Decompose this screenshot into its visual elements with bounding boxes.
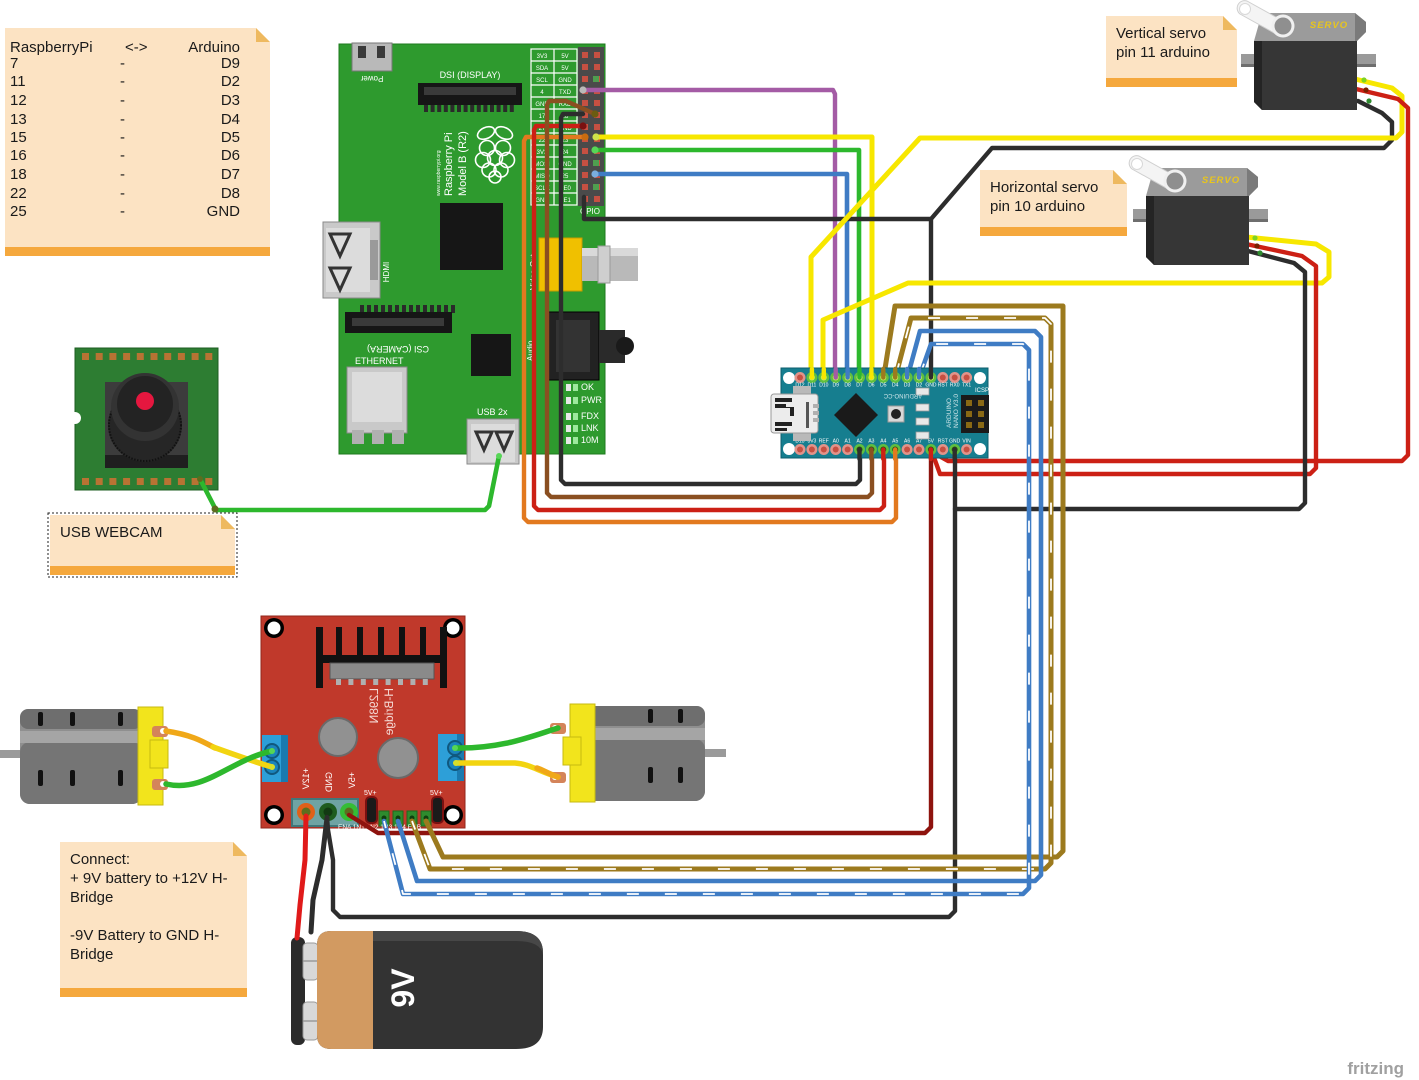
wire: horizontal servo black to Arduino GND	[955, 251, 1305, 509]
LED labels OK PWR FDX LNK 10M	[566, 382, 602, 445]
wire: Pi GPIO hook to A3 (brown)	[547, 101, 872, 497]
svg-text:D5: D5	[880, 383, 887, 389]
svg-text:ARDUINO-CC: ARDUINO-CC	[883, 392, 922, 398]
svg-text:D6: D6	[868, 383, 875, 389]
svg-text:VIN: VIN	[962, 439, 971, 445]
svg-text:TXD: TXD	[559, 90, 572, 96]
svg-text:pin 10 arduino: pin 10 arduino	[990, 198, 1085, 215]
svg-text:SCL: SCL	[536, 78, 548, 84]
Pi CSI camera connector	[345, 305, 455, 354]
svg-text:-: -	[120, 203, 125, 220]
svg-text:fritzing: fritzing	[1347, 1059, 1404, 1078]
GPIO wire connection caps	[579, 86, 599, 177]
Pi HDMI connector	[323, 222, 391, 298]
right DC motor	[550, 704, 726, 802]
svg-text:-: -	[120, 111, 125, 128]
svg-text:5V: 5V	[561, 66, 568, 72]
Arduino SMD passives	[916, 388, 929, 395]
svg-text:5V+: 5V+	[430, 790, 443, 797]
svg-text:D5: D5	[221, 129, 240, 146]
svg-text:RX0: RX0	[950, 383, 960, 389]
svg-text:9V: 9V	[385, 968, 421, 1008]
wire: Pi GPIO to Arduino D9 (purple)	[583, 90, 835, 375]
Pi audio jack	[526, 312, 634, 380]
Pi power connector	[352, 43, 392, 83]
wire: right motor leads	[455, 728, 558, 748]
Pi video out RCA	[529, 238, 638, 291]
svg-text:A2: A2	[856, 439, 862, 445]
svg-text:13: 13	[10, 111, 27, 128]
svg-text:REF: REF	[819, 439, 829, 445]
svg-text:SERVO: SERVO	[1202, 175, 1240, 186]
wire: H-bridge GND to battery - (black)	[311, 818, 327, 932]
wire: Arduino GND to H-bridge GND terminal (black)	[327, 450, 955, 917]
Arduino ICSP header	[961, 388, 989, 433]
Pi GPIO label table	[531, 49, 577, 205]
wire: GND black Pi GPIO 25 to vertical servo, branch to Arduino GND	[584, 101, 1392, 219]
H-bridge capacitors	[319, 718, 357, 756]
svg-text:ENA 1N1 1N2 1N3 1N4 ENB: ENA 1N1 1N2 1N3 1N4 ENB	[338, 824, 421, 831]
GPIO green pads	[593, 76, 599, 190]
svg-text:Power: Power	[360, 74, 383, 83]
svg-text:D9: D9	[221, 55, 240, 72]
wire: Arduino D11 to vertical servo signal (yellow)	[811, 79, 1402, 375]
Pi DSI display connector	[418, 70, 522, 112]
svg-text:-: -	[120, 92, 125, 109]
svg-text:+ 9V battery to +12V H-: + 9V battery to +12V H-	[70, 870, 228, 887]
svg-text:12: 12	[10, 92, 27, 109]
svg-text:FDX: FDX	[581, 411, 599, 421]
svg-text:Vertical servo: Vertical servo	[1116, 25, 1206, 42]
svg-text:A5: A5	[892, 439, 898, 445]
svg-text:A6: A6	[904, 439, 910, 445]
svg-text:pin 11 arduino: pin 11 arduino	[1116, 44, 1210, 61]
USB webcam board	[69, 348, 218, 490]
Raspberry Pi Model B board	[339, 44, 605, 454]
svg-text:D9: D9	[832, 383, 839, 389]
svg-text:ETHERNET: ETHERNET	[355, 356, 404, 366]
svg-text:D4: D4	[221, 111, 240, 128]
Pi logo + text	[476, 124, 515, 183]
svg-text:Model B (R2): Model B (R2)	[457, 131, 469, 196]
svg-text:DSI (DISPLAY): DSI (DISPLAY)	[440, 70, 501, 80]
wire: Pi GPIO hook to A4 (red)	[534, 126, 884, 510]
svg-text:USB 2x: USB 2x	[477, 407, 508, 417]
svg-text:D3: D3	[221, 92, 240, 109]
svg-text:11: 11	[10, 73, 26, 90]
svg-text:10M: 10M	[581, 435, 599, 445]
note: USB WEBCAM	[48, 513, 237, 577]
wire: Arduino D10 to horizontal servo signal (yellow)	[823, 237, 1329, 375]
wire: webcam to Pi USB (green)	[200, 479, 215, 508]
svg-text:Bridge: Bridge	[70, 889, 113, 906]
svg-text:RST: RST	[938, 439, 948, 445]
H-bridge heatsink	[316, 627, 447, 688]
svg-text:ICSP: ICSP	[975, 388, 989, 394]
svg-text:A0: A0	[833, 439, 839, 445]
Pi SoC chip	[440, 203, 503, 270]
wire: Pi GPIO to Arduino D6 (yellow)	[596, 137, 872, 375]
wire: Arduino 5V to H-bridge +5V terminal (dark red)	[349, 452, 931, 833]
wire: vertical servo red to Arduino 5V	[932, 89, 1408, 461]
svg-text:25: 25	[10, 203, 27, 220]
svg-text:GND: GND	[207, 203, 241, 220]
svg-text:D2: D2	[221, 73, 240, 90]
svg-text:HDMI: HDMI	[382, 262, 391, 282]
svg-text:Arduino: Arduino	[188, 39, 240, 56]
Pi LAN chip	[471, 334, 511, 376]
svg-text:ARDUINO: ARDUINO	[946, 398, 953, 428]
svg-text:GND: GND	[949, 439, 961, 445]
wire: H-bridge +12V to battery + (red)	[297, 816, 306, 938]
svg-text:5V+: 5V+	[364, 790, 377, 797]
Arduino MCU diamond chip	[834, 393, 878, 437]
svg-text:15: 15	[10, 129, 27, 146]
wire: Arduino D3 to H-bridge 1N2 (blue)	[398, 331, 1041, 881]
svg-text:D4: D4	[892, 383, 899, 389]
svg-text:D7: D7	[856, 383, 863, 389]
left DC motor	[0, 707, 168, 805]
Arduino pin rows	[795, 372, 973, 455]
wire: Arduino D5 to H-bridge 1N4 (dark yellow)	[426, 306, 1063, 857]
9V battery	[291, 931, 543, 1049]
svg-text:Horizontal servo: Horizontal servo	[990, 179, 1098, 196]
Pi ethernet connector	[347, 356, 407, 444]
svg-text:-: -	[120, 129, 125, 146]
wire: Pi GPIO hook to A2 (black)	[561, 114, 860, 484]
horizontal servo lead tip dots	[1252, 235, 1257, 240]
Arduino RST button	[888, 406, 904, 422]
Arduino pin wire tip stubs	[812, 369, 955, 459]
svg-text:PWR: PWR	[581, 395, 602, 405]
H-bridge 5V jumpers	[364, 790, 443, 823]
svg-text:RST: RST	[938, 383, 948, 389]
H-bridge +12V GND +5V labels	[301, 768, 357, 793]
note: horizontal servo pin 10	[980, 170, 1127, 236]
note: RaspberryPi-Arduino pin mapping	[5, 28, 270, 256]
svg-text:A1: A1	[845, 439, 851, 445]
svg-text:Bridge: Bridge	[70, 946, 113, 963]
Pi USB 2x connector	[467, 407, 519, 464]
svg-text:CSI (CAMERA): CSI (CAMERA)	[367, 344, 429, 354]
svg-text:Raspberry Pi: Raspberry Pi	[443, 132, 455, 196]
wire: left motor leads	[166, 731, 215, 748]
wire: Pi GPIO hook to A5 (orange)	[524, 137, 896, 522]
svg-text:22: 22	[10, 185, 27, 202]
svg-text:H-Bridge: H-Bridge	[382, 688, 396, 736]
Arduino Nano board	[781, 368, 988, 458]
svg-text:NANO V3.0: NANO V3.0	[953, 394, 960, 428]
wire: Pi GPIO to Arduino D7 (green)	[595, 150, 859, 375]
svg-text:www.raspberrypi.org: www.raspberrypi.org	[436, 150, 442, 196]
svg-text:OK: OK	[581, 382, 594, 392]
svg-text:LNK: LNK	[581, 423, 599, 433]
svg-text:-: -	[120, 185, 125, 202]
svg-text:D3: D3	[904, 383, 911, 389]
svg-text:18: 18	[10, 166, 27, 183]
svg-text:Connect:: Connect:	[70, 851, 130, 868]
vertical servo lead tip dots	[1361, 77, 1366, 82]
svg-text:RaspberryPi: RaspberryPi	[10, 39, 93, 56]
svg-text:TX1: TX1	[962, 383, 971, 389]
svg-text:D7: D7	[221, 166, 240, 183]
svg-text:<->: <->	[125, 39, 148, 56]
svg-text:SERVO: SERVO	[1310, 20, 1348, 31]
svg-text:SDA: SDA	[536, 66, 548, 72]
svg-text:USB WEBCAM: USB WEBCAM	[60, 524, 163, 541]
svg-text:3V3: 3V3	[537, 54, 548, 60]
svg-text:L298N: L298N	[367, 688, 381, 723]
svg-text:-: -	[120, 73, 125, 90]
wire: horizontal servo red to Arduino 5V	[932, 244, 1316, 474]
svg-text:A4: A4	[880, 439, 886, 445]
H-bridge signal header pins ENA..ENB	[338, 811, 431, 831]
svg-text:+12V: +12V	[301, 768, 311, 789]
L298N H-Bridge board	[261, 616, 465, 828]
H-bridge right motor terminal	[438, 734, 464, 781]
svg-text:D6: D6	[221, 147, 240, 164]
svg-text:D8: D8	[221, 185, 240, 202]
svg-text:D10: D10	[819, 383, 828, 389]
svg-text:-: -	[120, 166, 125, 183]
note: battery connect instructions	[60, 842, 247, 997]
H-bridge power terminal block	[292, 799, 358, 826]
vertical servo motor	[1237, 1, 1376, 110]
svg-text:7: 7	[10, 55, 18, 72]
Pi GPIO pin header block	[578, 47, 604, 216]
svg-text:GND: GND	[324, 772, 334, 793]
svg-text:5V: 5V	[561, 54, 568, 60]
wire: black branch to Arduino top GND	[929, 219, 933, 375]
svg-text:16: 16	[10, 147, 27, 164]
Arduino mini USB	[771, 386, 819, 441]
svg-text:-: -	[120, 55, 125, 72]
wire: Arduino D2 to H-bridge 1N1 (blue striped)	[384, 344, 1029, 894]
H-bridge left motor terminal	[262, 735, 288, 782]
svg-text:-9V Battery to GND H-: -9V Battery to GND H-	[70, 927, 219, 944]
note: vertical servo pin 11	[1106, 16, 1237, 87]
horizontal servo motor	[1129, 156, 1268, 265]
svg-text:+5V: +5V	[347, 772, 357, 788]
wire: Arduino D4 to H-bridge 1N3 (dark yellow striped)	[412, 318, 1051, 869]
svg-text:GND: GND	[558, 78, 572, 84]
svg-text:-: -	[120, 147, 125, 164]
wire: Pi GPIO to Arduino D8 (blue)	[595, 174, 847, 375]
svg-text:A3: A3	[868, 439, 874, 445]
svg-text:D8: D8	[844, 383, 851, 389]
